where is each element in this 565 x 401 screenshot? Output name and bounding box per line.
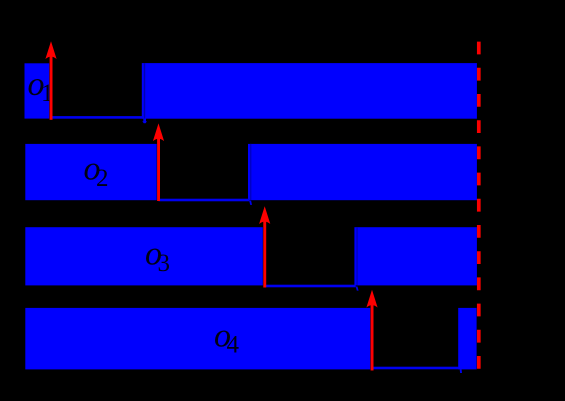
seam guide line in second chunk row1 [144, 63, 145, 119]
baseline arrow row 1 (wire) [51, 116, 144, 119]
release arrow R3 (red up arrow) [263, 220, 266, 288]
bar o1 second chunk [142, 63, 477, 119]
svg-text:3: 3 [158, 250, 171, 277]
baseline arrow row 3 (wire) [265, 285, 356, 288]
baseline arrow row 4 (wire) [372, 367, 459, 370]
bar o3 second chunk [354, 227, 477, 285]
baseline arrowhead tick row 4 [460, 369, 462, 373]
svg-text:4: 4 [227, 332, 240, 359]
down arrow tip row 1 [143, 119, 146, 122]
svg-text:2: 2 [96, 165, 109, 192]
bar o1 first chunk [25, 63, 50, 118]
seam guide line in second chunk row2 [250, 144, 251, 200]
baseline arrowhead tick row 3 [356, 287, 359, 291]
deadline dashed line [477, 42, 481, 370]
bar o4 second chunk [458, 308, 476, 370]
baseline arrow row 2 (wire) [159, 199, 250, 202]
baseline arrowhead tick row 2 [249, 201, 252, 205]
release arrow R2 (red up arrow) [157, 137, 160, 201]
bar o3 first chunk [25, 227, 262, 285]
seam guide line in second chunk row3 [356, 227, 357, 285]
release arrow R1 (red up arrow) [50, 55, 53, 120]
bar o2 first chunk [25, 144, 156, 200]
bar o2 second chunk [248, 144, 477, 200]
release arrow R4 (red up arrow) [371, 304, 374, 371]
bar o4 first chunk [25, 308, 370, 370]
